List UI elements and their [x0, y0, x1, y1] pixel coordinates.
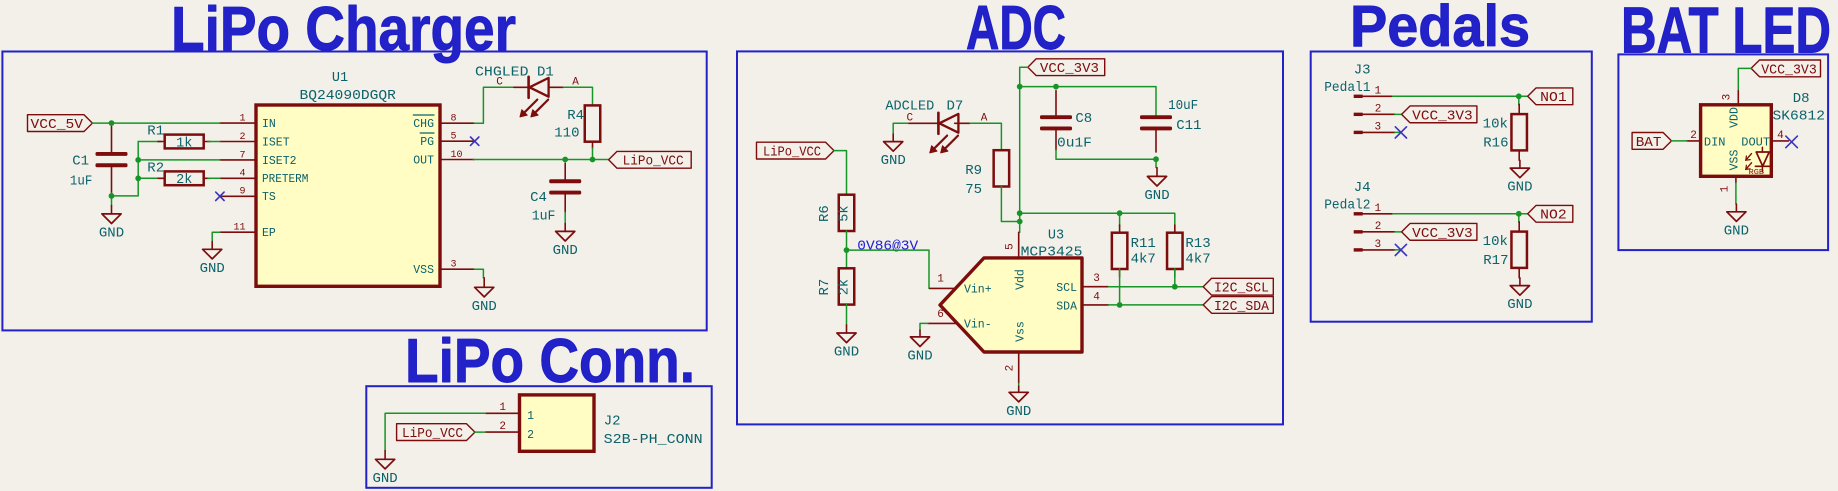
svg-text:4k7: 4k7: [1131, 252, 1156, 268]
svg-text:R11: R11: [1131, 236, 1156, 252]
svg-text:R13: R13: [1185, 236, 1210, 252]
svg-text:ISET: ISET: [262, 136, 290, 149]
U1 pin 1 IN: [220, 114, 276, 132]
svg-text:1: 1: [527, 410, 534, 423]
svg-text:1uF: 1uF: [70, 174, 92, 190]
wire VCC_5V to U1 IN: [92, 122, 219, 124]
section box ADC: [737, 51, 1283, 424]
svg-text:ISET2: ISET2: [262, 155, 297, 168]
D8 pin 1 VSS: [1720, 150, 1742, 193]
wire J3 pin3 stub: [1395, 131, 1400, 133]
wire C8 C11 bottoms: [1056, 150, 1156, 168]
wire divider to U3 Vin+: [847, 250, 930, 288]
svg-text:1: 1: [1720, 185, 1732, 192]
wire J4 pin2 to label: [1395, 231, 1402, 233]
svg-text:6: 6: [937, 309, 944, 321]
U3 pin 3 SCL: [1056, 273, 1108, 295]
svg-text:BQ24090DGQR: BQ24090DGQR: [300, 89, 396, 104]
wire R9 bottom to Vdd net: [1001, 187, 1019, 222]
svg-text:DOUT: DOUT: [1741, 136, 1770, 150]
global label I2C_SCL: [1203, 278, 1273, 296]
svg-text:8: 8: [451, 114, 457, 125]
wire J2 pin1 to ground: [385, 413, 485, 450]
section box LiPo Charger: [2, 52, 706, 331]
junction at VCC_5V node: [109, 120, 115, 126]
svg-text:GND: GND: [1724, 223, 1749, 239]
svg-text:VCC_3V3: VCC_3V3: [1761, 62, 1817, 78]
wire R13 bottom to SCL: [1174, 269, 1176, 287]
wire D1 anode to R4: [563, 87, 592, 105]
section title Pedals: [1350, 0, 1530, 59]
wire J3 pin2 to label: [1395, 113, 1402, 115]
wire U1 CHG to LED D1: [474, 87, 514, 123]
svg-text:1: 1: [1374, 203, 1381, 215]
wire ISET2 to divider: [138, 159, 220, 161]
svg-text:2k: 2k: [838, 279, 853, 295]
svg-text:NO2: NO2: [1540, 208, 1567, 224]
capacitor C4: [530, 163, 581, 224]
U3 pin 5 Vdd: [1005, 232, 1028, 290]
svg-text:3: 3: [1374, 239, 1381, 251]
svg-text:1k: 1k: [176, 136, 192, 151]
svg-text:GND: GND: [907, 348, 932, 364]
svg-text:R16: R16: [1483, 136, 1508, 152]
svg-text:2k: 2k: [176, 173, 192, 188]
U3 pin 2 Vss: [1005, 321, 1028, 383]
J4 pin 2: [1354, 221, 1395, 234]
svg-text:SK6812: SK6812: [1773, 109, 1826, 125]
global label NO2: [1528, 205, 1573, 223]
connector J4 Pedal2: [1324, 180, 1370, 214]
svg-text:GND: GND: [881, 153, 906, 169]
svg-text:5: 5: [451, 132, 457, 143]
wire label to J2 pin2: [475, 431, 486, 433]
svg-text:R7: R7: [817, 279, 833, 296]
svg-text:R17: R17: [1483, 253, 1508, 269]
section title LiPo Charger: [171, 0, 516, 64]
U1 pin 11 EP: [220, 223, 276, 241]
svg-text:I2C_SCL: I2C_SCL: [1214, 281, 1269, 297]
wire SCL to label: [1109, 286, 1204, 288]
svg-text:VSS: VSS: [1729, 150, 1742, 171]
global label I2C_SDA: [1203, 297, 1273, 315]
svg-text:R1: R1: [147, 124, 164, 140]
svg-text:2: 2: [499, 421, 506, 433]
wire U3 Vss to ground: [1018, 383, 1020, 386]
global label VCC_3V3 top of ADC: [1028, 59, 1105, 77]
svg-text:3: 3: [1093, 273, 1100, 285]
svg-text:R2: R2: [147, 160, 164, 176]
U1 pin 4 PRETERM: [220, 169, 309, 187]
svg-text:PRETERM: PRETERM: [262, 173, 308, 186]
svg-text:LiPo_VCC: LiPo_VCC: [623, 154, 684, 170]
svg-text:GND: GND: [1006, 404, 1031, 420]
svg-text:R4: R4: [567, 108, 584, 124]
svg-text:GND: GND: [472, 299, 497, 315]
resistor R4 110: [554, 105, 600, 148]
resistor R2 2k: [138, 160, 220, 188]
svg-text:3: 3: [451, 260, 457, 271]
resistor R9 75: [965, 150, 1009, 198]
ground at J2 pin1: [372, 451, 397, 487]
svg-text:LiPo Conn.: LiPo Conn.: [405, 327, 695, 396]
svg-text:OUT: OUT: [413, 154, 434, 167]
U1 pin 7 ISET2: [220, 150, 297, 168]
svg-text:GND: GND: [200, 261, 225, 277]
svg-text:U3: U3: [1048, 229, 1064, 244]
junction at C1 bottom / GND node: [109, 193, 115, 199]
svg-text:4: 4: [1777, 130, 1784, 142]
ground below Vin-: [907, 330, 932, 364]
junction divider-R2: [135, 175, 141, 181]
svg-text:VSS: VSS: [413, 264, 434, 277]
wire D8 VSS to ground: [1735, 183, 1737, 204]
wire U3 Vin- to ground: [920, 323, 928, 330]
connector J3 Pedal1: [1324, 62, 1370, 96]
svg-text:DIN: DIN: [1704, 136, 1726, 150]
no-connect X at J4 pin 3: [1395, 244, 1406, 255]
svg-text:10uF: 10uF: [1168, 98, 1198, 114]
svg-text:C11: C11: [1176, 118, 1201, 134]
wire BAT to DIN: [1672, 140, 1687, 142]
svg-text:U1: U1: [332, 71, 348, 86]
global label NO1: [1528, 88, 1573, 106]
junction divider node 0V86: [844, 247, 850, 253]
section box LiPo Conn: [366, 386, 711, 488]
svg-text:D1: D1: [537, 64, 554, 80]
svg-text:Pedal2: Pedal2: [1324, 198, 1370, 214]
svg-text:GND: GND: [1507, 297, 1532, 313]
svg-text:GND: GND: [553, 243, 578, 259]
junction pin1-R16: [1516, 93, 1522, 99]
wire D7 cathode to ground: [893, 123, 908, 134]
junction Vdd rail: [1017, 210, 1023, 216]
svg-text:1: 1: [937, 274, 944, 286]
wire J4 pin3 stub: [1395, 249, 1400, 251]
svg-text:VCC_3V3: VCC_3V3: [1412, 226, 1473, 242]
global label VCC_5V: [28, 115, 93, 133]
J2 pin 1: [485, 402, 534, 423]
global label BAT: [1632, 133, 1671, 151]
svg-text:Vdd: Vdd: [1014, 269, 1027, 290]
wire R4 to OUT net: [592, 148, 594, 160]
junction R11 top: [1117, 210, 1123, 216]
svg-text:110: 110: [554, 126, 579, 142]
svg-text:2: 2: [239, 132, 245, 143]
svg-text:5k: 5k: [838, 205, 853, 221]
junction SCL-R13: [1172, 284, 1178, 290]
capacitor C1: [70, 127, 128, 194]
svg-text:10k: 10k: [1483, 116, 1508, 132]
svg-text:75: 75: [965, 182, 982, 198]
wire segment to GND: [111, 196, 113, 206]
svg-text:4k7: 4k7: [1185, 252, 1210, 268]
svg-text:C1: C1: [72, 154, 89, 170]
J4 pin 3: [1354, 239, 1395, 252]
svg-text:1: 1: [1374, 85, 1381, 97]
svg-text:LiPo_VCC: LiPo_VCC: [402, 426, 463, 442]
U1 pin 10 OUT: [413, 150, 474, 168]
wire C1 bottom to resistor divider: [112, 142, 139, 196]
D8 pin 3 VDD: [1722, 91, 1742, 128]
ground below U1 VSS: [472, 278, 497, 315]
svg-text:3: 3: [1374, 122, 1381, 134]
svg-text:LiPo_VCC: LiPo_VCC: [763, 145, 821, 161]
junction OUT-R4: [590, 157, 596, 163]
ground below C4: [553, 223, 578, 259]
svg-text:MCP3425: MCP3425: [1021, 246, 1083, 261]
capacitor C11 10uF: [1140, 98, 1201, 152]
svg-text:C4: C4: [530, 190, 547, 206]
svg-text:Pedals: Pedals: [1350, 0, 1530, 59]
section title BAT LED: [1621, 0, 1831, 67]
svg-text:0u1F: 0u1F: [1057, 136, 1092, 152]
no-connect X at D8 DOUT: [1786, 136, 1798, 148]
svg-text:TS: TS: [262, 191, 276, 204]
U1 pin 2 ISET: [220, 132, 290, 150]
IC U1 BQ24090DGQR body: [256, 71, 440, 286]
svg-text:7: 7: [239, 150, 245, 161]
svg-text:BAT: BAT: [1636, 135, 1662, 151]
global label LiPo_VCC: [609, 151, 692, 169]
svg-text:GND: GND: [99, 225, 124, 241]
svg-text:J2: J2: [604, 414, 621, 430]
resistor R7 2k: [817, 268, 854, 304]
resistor R13 4k7: [1167, 225, 1211, 277]
no-connect X at J3 pin 3: [1395, 127, 1406, 138]
svg-text:3: 3: [1722, 94, 1734, 101]
J4 pin 1: [1354, 203, 1393, 216]
ground below D7: [881, 134, 906, 169]
svg-text:5: 5: [1005, 243, 1017, 250]
svg-text:RGB: RGB: [1749, 169, 1765, 177]
svg-text:J3: J3: [1354, 62, 1371, 78]
svg-text:10k: 10k: [1483, 234, 1508, 250]
wire R7 to ground: [846, 305, 848, 325]
svg-text:D8: D8: [1793, 91, 1810, 107]
svg-text:Pedal1: Pedal1: [1324, 80, 1370, 96]
U3 pin 6 Vin-: [928, 309, 992, 331]
wire R16 to ground: [1518, 150, 1520, 160]
RGB LED D8 SK6812 body: [1701, 91, 1825, 176]
svg-text:VCC_3V3: VCC_3V3: [1040, 61, 1099, 77]
wire Vdd rail to pullups: [1020, 213, 1175, 233]
svg-text:VCC_5V: VCC_5V: [31, 117, 84, 133]
svg-text:10: 10: [451, 150, 463, 161]
wire J3 pin1 to NO1: [1393, 95, 1528, 97]
svg-text:SCL: SCL: [1056, 282, 1077, 295]
svg-text:VDD: VDD: [1729, 107, 1742, 128]
svg-text:2: 2: [1375, 103, 1382, 115]
junction R9-Vdd: [1017, 219, 1023, 225]
section title LiPo Conn.: [405, 327, 695, 396]
global label LiPo_VCC in ADC: [757, 142, 835, 160]
D8 pin 4 DOUT: [1741, 130, 1788, 150]
wire EP to ground: [212, 232, 220, 241]
J2 pin 2: [485, 421, 534, 442]
ground below U3 Vss: [1006, 386, 1031, 420]
wire R6 to R7 divider node: [846, 231, 848, 268]
U1 pin 9 TS: [220, 187, 276, 205]
svg-text:0V86@3V: 0V86@3V: [857, 240, 919, 255]
D8 pin 2 DIN: [1687, 130, 1726, 150]
J3 pin 2: [1354, 103, 1395, 116]
svg-text:ADC: ADC: [966, 0, 1066, 63]
section title ADC: [966, 0, 1066, 63]
section box Pedals: [1311, 52, 1592, 322]
svg-text:NO1: NO1: [1540, 90, 1567, 106]
wire C4 to ground: [564, 212, 566, 223]
resistor R6 5k: [817, 195, 854, 231]
ground below C1: [99, 206, 124, 242]
wire R17 to ground: [1518, 268, 1520, 278]
wire D7 anode to R9: [970, 123, 1001, 150]
ground below D8: [1724, 204, 1749, 239]
U1 pin 8 CHG: [413, 114, 474, 132]
ground below C11: [1144, 168, 1169, 204]
LED glyph inside D8: [1746, 147, 1771, 177]
resistor R11 4k7: [1112, 213, 1156, 277]
ground below R17: [1507, 278, 1532, 313]
svg-text:4: 4: [239, 169, 245, 180]
global label VCC_3V3 at J3: [1402, 106, 1477, 124]
svg-text:C8: C8: [1075, 111, 1092, 127]
svg-text:IN: IN: [262, 118, 276, 131]
wire J4 pin1 to NO2: [1393, 213, 1528, 215]
svg-text:2: 2: [527, 429, 534, 442]
svg-text:S2B-PH_CONN: S2B-PH_CONN: [604, 432, 703, 448]
svg-text:2: 2: [1005, 365, 1017, 372]
svg-text:J4: J4: [1354, 180, 1371, 196]
svg-text:PG: PG: [420, 136, 434, 149]
global label VCC_3V3 at BAT LED: [1751, 60, 1820, 78]
svg-text:SDA: SDA: [1056, 300, 1077, 313]
wire to C8 C11 tops: [1020, 87, 1156, 116]
no-connect X at U1 TS: [216, 192, 224, 200]
connector J2 S2B-PH_CONN body: [520, 395, 703, 451]
no-connect X at U1 PG: [471, 137, 479, 145]
junction OUT-C4: [562, 157, 568, 163]
ADC U3 MCP3425 body: [940, 229, 1083, 353]
ground below R16: [1507, 160, 1532, 195]
LED D1 CHGLED: [475, 64, 579, 117]
ground below R7: [834, 325, 859, 361]
svg-text:9: 9: [239, 187, 245, 198]
svg-text:C: C: [496, 77, 503, 89]
svg-text:GND: GND: [1507, 180, 1532, 196]
J3 pin 3: [1354, 122, 1395, 135]
U3 pin 1 Vin+: [930, 274, 992, 297]
junction C8 top: [1053, 84, 1059, 90]
svg-text:CHG: CHG: [413, 118, 434, 131]
svg-text:GND: GND: [834, 345, 859, 361]
section box BAT LED: [1618, 54, 1828, 250]
wire U1 OUT to LiPo_VCC: [473, 159, 608, 161]
svg-text:2: 2: [1375, 221, 1382, 233]
wire LiPo_VCC to R6: [834, 151, 847, 195]
junction SDA-R11: [1117, 302, 1123, 308]
svg-text:Vin+: Vin+: [964, 283, 992, 296]
U1 pin 3 VSS: [413, 260, 474, 278]
svg-text:11: 11: [233, 223, 245, 234]
svg-text:4: 4: [1093, 292, 1100, 304]
junction divider-ISET2: [135, 157, 141, 163]
svg-text:I2C_SDA: I2C_SDA: [1214, 299, 1270, 315]
U3 pin 4 SDA: [1056, 292, 1108, 314]
junction pin1-R17: [1516, 211, 1522, 217]
svg-text:LiPo Charger: LiPo Charger: [171, 0, 516, 64]
wire VCC_3V3 down to U3 Vdd: [1020, 67, 1028, 232]
svg-text:VCC_3V3: VCC_3V3: [1412, 108, 1473, 124]
junction cap ground node: [1153, 156, 1159, 162]
LED D7 ADCLED: [885, 98, 987, 152]
U1 pin 5 PG: [420, 132, 474, 150]
junction VCC to caps: [1017, 84, 1023, 90]
resistor R16 10k: [1483, 96, 1527, 151]
ground below EP: [200, 242, 225, 277]
global label LiPo_VCC at J2: [397, 424, 475, 442]
svg-text:R9: R9: [965, 163, 982, 179]
svg-text:Vin-: Vin-: [964, 318, 992, 331]
svg-text:2: 2: [1690, 130, 1697, 142]
wire U1 VSS to ground: [474, 269, 483, 278]
capacitor C8 0u1F: [1040, 91, 1092, 152]
J3 pin 1: [1354, 85, 1393, 98]
svg-text:GND: GND: [372, 471, 397, 487]
svg-text:BAT LED: BAT LED: [1621, 0, 1831, 67]
svg-text:1: 1: [499, 402, 506, 414]
wire VCC_3V3 to D8 VDD: [1738, 68, 1751, 90]
svg-text:Vss: Vss: [1014, 321, 1027, 342]
svg-text:1uF: 1uF: [532, 209, 556, 225]
svg-text:D7: D7: [947, 98, 964, 114]
svg-text:GND: GND: [1144, 188, 1169, 204]
svg-text:1: 1: [239, 114, 245, 125]
global label VCC_3V3 at J4: [1402, 223, 1477, 241]
wire SDA to label: [1109, 304, 1204, 306]
wire R11 bottom to SDA: [1119, 269, 1121, 305]
resistor R17 10k: [1483, 214, 1527, 269]
resistor R1 1k: [138, 124, 220, 152]
svg-text:EP: EP: [262, 227, 276, 240]
svg-text:R6: R6: [817, 205, 833, 222]
